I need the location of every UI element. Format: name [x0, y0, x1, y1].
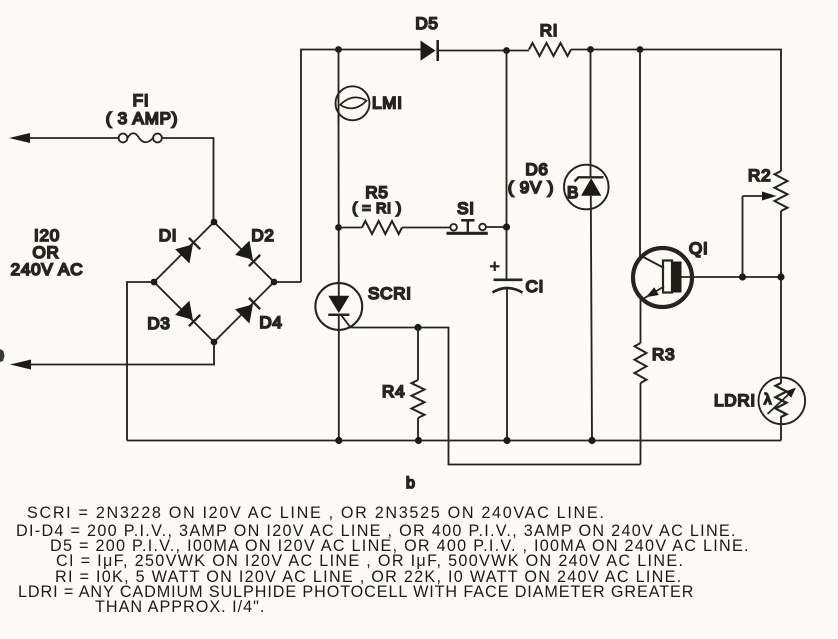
svg-text:B: B — [567, 183, 579, 202]
node bridge left — [151, 279, 158, 286]
resistor R2 (pot) — [775, 171, 788, 211]
wire upper AC lead with arrow — [9, 133, 119, 143]
node SCR1 cathode rail — [335, 437, 342, 444]
svg-text:R4: R4 — [382, 382, 405, 401]
wire C1 to bottom rail — [506, 289, 508, 441]
node LM1 branch on top rail — [335, 46, 342, 53]
fuse F1 — [119, 133, 162, 142]
svg-text:SI: SI — [457, 199, 475, 218]
wire bridge lower-left edge — [154, 282, 214, 342]
svg-text:D2: D2 — [251, 226, 274, 245]
wire top rail — [301, 50, 421, 283]
node bridge bottom — [211, 339, 218, 346]
resistor R4 — [412, 380, 425, 418]
lamp LM1 — [336, 86, 370, 120]
node base divider junction — [777, 273, 784, 280]
wire bridge upper-left edge — [154, 222, 214, 282]
wire bridge lower-right edge — [214, 282, 274, 342]
svg-text:CI: CI — [526, 277, 545, 296]
wire Q1 collector branch — [639, 50, 641, 258]
wire R5 to S1 — [402, 227, 450, 229]
wire SCR1 cathode to rail — [338, 315, 340, 441]
wire R4 upper — [417, 328, 419, 381]
zener D6 — [564, 165, 609, 210]
wire node to R5 — [339, 227, 363, 229]
wire lower AC lead with arrow — [10, 342, 214, 370]
wire bridge right node to top rail — [274, 281, 301, 283]
wire bridge upper-right edge — [214, 222, 274, 282]
svg-text:THAN APPROX. I/4".: THAN APPROX. I/4". — [95, 598, 265, 616]
wire D6 to bottom rail — [591, 196, 592, 441]
wire edge artifact — [0, 349, 5, 362]
wire LM1 to SCR1 anode — [338, 115, 340, 297]
thyristor SCR1 — [315, 283, 362, 330]
wire LDR1 to bottom rail — [780, 417, 782, 441]
node top rail Q1 branch — [637, 46, 644, 53]
switch S1 — [447, 220, 488, 233]
diode D4 — [235, 298, 260, 324]
diode D3 — [175, 301, 200, 327]
wire R3 to lower link — [640, 383, 642, 465]
svg-text:λ: λ — [764, 392, 772, 408]
node C1 bottom rail — [503, 437, 510, 444]
svg-text:R2: R2 — [748, 166, 771, 185]
diode D2 — [235, 241, 260, 267]
diode D5 — [421, 40, 438, 61]
wire R4 to rail — [417, 418, 419, 441]
svg-text:R3: R3 — [652, 345, 675, 364]
label 120 OR 240VAC — [11, 226, 84, 279]
svg-text:240V AC: 240V AC — [11, 260, 84, 279]
wire S1 to C1 node — [486, 226, 507, 228]
wire D6 branch upper — [590, 50, 592, 178]
transistor Q1 — [633, 248, 692, 307]
resistor R5 — [362, 221, 402, 234]
wire LM1 branch upper — [338, 50, 340, 125]
wire R2 bottom to LDR1 — [780, 211, 782, 384]
photocell LDR1 — [759, 378, 806, 425]
svg-text:LDRI: LDRI — [714, 391, 756, 410]
svg-text:D6: D6 — [525, 160, 548, 179]
node wiper junction — [739, 273, 746, 280]
svg-text:RI: RI — [540, 21, 559, 40]
resistor R3 — [635, 343, 647, 383]
diode D1 — [175, 238, 200, 264]
svg-text:D5: D5 — [415, 14, 438, 33]
wire bridge left node to bottom rail — [127, 282, 154, 441]
svg-text:D4: D4 — [259, 313, 282, 332]
wire fuse to bridge top — [162, 138, 214, 222]
wire Q1 emitter to R3 — [640, 298, 642, 343]
wire C1 branch upper — [506, 51, 508, 279]
svg-text:b: b — [406, 475, 415, 492]
node R5 tap — [335, 224, 342, 231]
capacitor C1 — [490, 262, 523, 293]
wire bottom rail — [127, 440, 781, 442]
svg-text:( 3 AMP): ( 3 AMP) — [106, 109, 179, 128]
svg-text:QI: QI — [689, 239, 709, 258]
node top rail D6 branch — [587, 46, 594, 53]
node S1 junction — [503, 223, 510, 230]
svg-text:SCRI: SCRI — [368, 284, 412, 303]
wire R2 wiper arrow — [743, 192, 777, 278]
node R4 rail — [415, 437, 422, 444]
resistor R1 — [529, 43, 571, 56]
svg-text:DI: DI — [159, 226, 178, 245]
node top rail C1 branch — [503, 47, 510, 54]
svg-text:LMI: LMI — [372, 94, 403, 113]
node R4 tap — [414, 324, 421, 331]
svg-text:( 9V ): ( 9V ) — [508, 178, 554, 197]
svg-text:R5: R5 — [365, 183, 388, 202]
wire top rail right of R1 — [571, 50, 781, 172]
wire top rail right of D5 — [439, 50, 530, 52]
svg-text:D3: D3 — [147, 314, 170, 333]
wire Q1 base to divider — [682, 276, 782, 278]
node D6 bottom rail — [588, 437, 595, 444]
node bridge right — [271, 279, 278, 286]
wire SCR1 gate run — [351, 328, 641, 465]
node bridge top — [211, 219, 218, 226]
parts list text — [16, 504, 750, 616]
svg-text:FI: FI — [133, 91, 150, 110]
svg-text:( = RI ): ( = RI ) — [352, 201, 402, 217]
svg-text:SCRI = 2N3228 ON I20V AC LI: SCRI = 2N3228 ON I20V AC LINE , OR 2N352… — [27, 504, 606, 522]
